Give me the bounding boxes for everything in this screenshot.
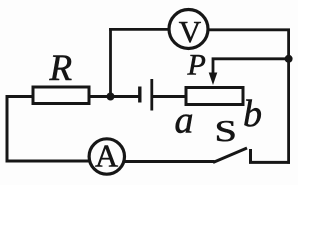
svg-text:a: a [175,100,194,142]
svg-text:P: P [187,49,206,82]
node junction dot right [285,55,293,63]
wire left vertical [6,95,9,163]
switch right contact and wire to right corner [251,149,291,162]
wire bottom left [6,160,90,163]
svg-text:A: A [95,138,118,174]
battery cell [140,79,152,111]
wire voltmeter to right corner [208,28,290,31]
node junction dot left [107,93,115,101]
svg-text:R: R [49,48,73,89]
wire slider to right junction [213,59,289,74]
wire voltmeter branch vertical [109,28,112,97]
svg-text:b: b [243,93,262,135]
svg-text:V: V [179,14,202,49]
wire voltmeter branch top left [109,28,169,31]
slider arrowhead [209,73,218,86]
wire right vertical [287,30,290,164]
rheostat P body [186,88,243,105]
switch S blade [213,148,247,163]
wire left horizontal to R [6,95,34,98]
wire ammeter to switch [123,160,215,163]
resistor R [33,87,89,104]
voltmeter V [169,10,208,50]
svg-text:S: S [215,113,237,147]
wire R to battery [89,95,139,98]
wire battery to rheostat [152,95,186,98]
label S [215,113,237,147]
ammeter A [89,138,124,175]
